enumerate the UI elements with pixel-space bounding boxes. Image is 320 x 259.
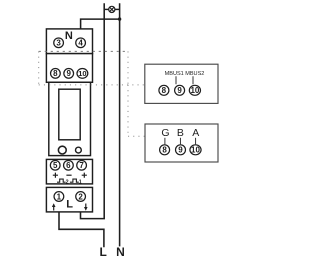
svg-text:8: 8 bbox=[162, 146, 167, 155]
button right bbox=[76, 147, 82, 153]
svg-text:N: N bbox=[116, 245, 125, 259]
svg-text:8: 8 bbox=[53, 69, 58, 78]
meter middle body bbox=[49, 82, 91, 155]
svg-text:5: 5 bbox=[53, 161, 58, 170]
svg-text:1: 1 bbox=[79, 180, 82, 186]
terminal 8 bbox=[51, 69, 61, 79]
option box RS485 G/B/A bbox=[145, 124, 218, 162]
terminal 2 bbox=[76, 192, 86, 202]
option terminal 9 (RS485) bbox=[176, 145, 186, 155]
option terminal 8 (RS485) bbox=[160, 145, 170, 155]
svg-text:9: 9 bbox=[178, 146, 183, 155]
junction node bbox=[118, 17, 121, 20]
svg-text:6: 6 bbox=[66, 161, 71, 170]
button left bbox=[58, 146, 66, 154]
arrow down (L out) bbox=[84, 204, 88, 211]
pulse symbol channel 1 bbox=[70, 179, 82, 186]
polarity + (under 5) bbox=[53, 173, 58, 178]
svg-text:L: L bbox=[100, 245, 107, 259]
svg-text:10: 10 bbox=[78, 69, 86, 78]
leader MBUS1 to 9 bbox=[175, 76, 177, 84]
svg-text:N: N bbox=[65, 30, 73, 42]
option terminal 9 bbox=[175, 85, 185, 95]
svg-text:7: 7 bbox=[79, 161, 84, 170]
svg-text:9: 9 bbox=[66, 69, 71, 78]
wire: N vertical (lamp right down to N) bbox=[119, 3, 121, 246]
terminal 5 bbox=[50, 160, 60, 170]
lamp L1 bbox=[104, 6, 119, 12]
svg-text:MBUS2: MBUS2 bbox=[185, 71, 204, 77]
terminal 6 bbox=[64, 160, 74, 170]
polarity - (under 6) bbox=[66, 174, 71, 176]
svg-text:9: 9 bbox=[177, 86, 182, 95]
svg-text:10: 10 bbox=[191, 146, 200, 155]
meter terminal box 1/L/2 bbox=[46, 187, 92, 212]
svg-text:MBUS1: MBUS1 bbox=[165, 71, 184, 77]
terminal 9 bbox=[64, 69, 74, 79]
meter terminal box 3/4 bbox=[46, 29, 92, 54]
svg-text:8: 8 bbox=[162, 86, 167, 95]
svg-text:2: 2 bbox=[78, 192, 83, 201]
option box MBUS bbox=[145, 64, 218, 103]
leader G to 8 bbox=[164, 138, 166, 145]
option terminal 10 (RS485) bbox=[190, 145, 201, 155]
meter terminal box 8/9/10 bbox=[46, 54, 92, 83]
wire: N branch into terminal 4 bbox=[81, 19, 120, 38]
leader B to 9 bbox=[179, 138, 181, 145]
dotted option rectangle around 8/9/10 bbox=[39, 51, 145, 85]
svg-text:L: L bbox=[66, 199, 73, 211]
wire: L supply to terminal 1 bbox=[59, 201, 104, 247]
leader A to 10 bbox=[195, 138, 197, 145]
svg-text:G: G bbox=[161, 127, 169, 139]
terminal 10 bbox=[77, 69, 88, 79]
arrow up (L in) bbox=[52, 203, 56, 210]
svg-text:1: 1 bbox=[57, 192, 62, 201]
terminal 3 bbox=[54, 38, 64, 48]
svg-text:A: A bbox=[192, 127, 199, 139]
terminal 1 bbox=[54, 192, 64, 202]
terminal 4 bbox=[76, 38, 86, 48]
LCD display bbox=[59, 89, 80, 140]
terminal 7 bbox=[77, 160, 87, 170]
option terminal 10 bbox=[189, 85, 200, 95]
svg-text:10: 10 bbox=[190, 86, 199, 95]
meter terminal box 5/6/7 bbox=[46, 159, 92, 184]
leader MBUS2 to 10 bbox=[192, 76, 194, 84]
polarity + (under 7) bbox=[82, 173, 87, 178]
dotted link to option boxes bbox=[128, 85, 145, 136]
wire: lamp left vertical (terminal 2 to lamp) bbox=[81, 3, 105, 218]
pulse symbol channel 2 bbox=[57, 179, 69, 186]
svg-text:2: 2 bbox=[66, 180, 69, 186]
svg-text:3: 3 bbox=[56, 39, 61, 48]
svg-text:4: 4 bbox=[78, 39, 83, 48]
option terminal 8 bbox=[159, 85, 169, 95]
svg-text:B: B bbox=[177, 127, 184, 139]
